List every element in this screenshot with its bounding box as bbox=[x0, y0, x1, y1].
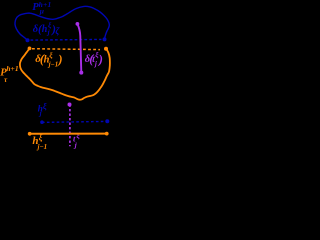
purple bottom label t_j^xi bbox=[73, 131, 80, 149]
svg-text:ζ: ζ bbox=[55, 26, 60, 36]
purple text delta(t_j^xi) bbox=[85, 50, 103, 68]
svg-text:j: j bbox=[39, 110, 42, 118]
svg-text:ξ: ξ bbox=[49, 50, 53, 59]
orange dashed chord delta(h_{j-1}) bbox=[32, 48, 100, 51]
svg-text:ξ: ξ bbox=[76, 131, 80, 140]
svg-text:j: j bbox=[47, 28, 50, 36]
svg-text:j: j bbox=[94, 60, 97, 68]
blue blob curve P^{h+1}_mu bbox=[15, 6, 109, 40]
svg-text:μ: μ bbox=[39, 7, 44, 16]
orange bottom interval with end dots bbox=[30, 133, 107, 135]
blue dashed chord delta(h_j) bbox=[31, 38, 102, 41]
orange label P^{h+1}_tau bbox=[0, 64, 18, 84]
svg-text:τ: τ bbox=[4, 75, 8, 84]
blue text delta(h_j^xi) bbox=[33, 21, 61, 37]
blue dot right end of chord bbox=[103, 37, 107, 41]
purple vertical bar delta(t_j) with end dots bbox=[78, 24, 82, 72]
orange dot left end bbox=[28, 47, 32, 51]
blue lower dashed line with end dots bbox=[42, 121, 107, 122]
orange dot right end bbox=[104, 47, 108, 51]
orange text delta(h_{j-1}^xi) bbox=[35, 50, 62, 68]
blue label P^{h+1}_mu bbox=[32, 0, 51, 16]
svg-text:h+1: h+1 bbox=[6, 64, 18, 73]
orange blob curve P^{h+1}_tau bbox=[20, 48, 110, 99]
blue dot left end of chord bbox=[26, 38, 30, 42]
purple lower dashed vertical line with top dot bbox=[69, 105, 71, 147]
blue label h_j^xi bottom bbox=[38, 101, 47, 118]
svg-text:ξ: ξ bbox=[43, 101, 47, 111]
svg-text:): ) bbox=[57, 52, 62, 66]
svg-text:j−1: j−1 bbox=[48, 60, 59, 68]
svg-text:j: j bbox=[74, 140, 78, 149]
svg-text:j−1: j−1 bbox=[37, 143, 48, 151]
svg-text:ξ: ξ bbox=[39, 133, 43, 142]
svg-text:): ) bbox=[98, 52, 103, 66]
orange bottom label h_{j-1}^xi bbox=[32, 133, 47, 151]
